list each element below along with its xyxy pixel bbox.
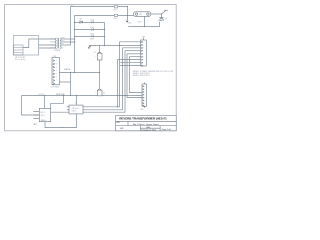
svg-text:WIRE 3 304 P03/74: WIRE 3 304 P03/74 (133, 75, 150, 77)
power entry module (14, 36, 39, 56)
6.3V tap circle (144, 26, 145, 27)
wire conn1 pin9 stub (120, 64, 141, 66)
wire lamp to node (151, 13, 162, 15)
svg-text:BR-1: BR-1 (41, 112, 45, 114)
svg-text:REG 5: REG 5 (72, 111, 77, 113)
wire rail1 top (71, 6, 128, 8)
wire box2 top stub (76, 96, 78, 106)
cap B (97, 89, 102, 95)
wire rail1 drop (70, 7, 72, 46)
wire 6.3V stub (144, 16, 146, 26)
svg-text:WHT: WHT (50, 42, 53, 44)
wire primary feed low (39, 47, 56, 49)
switch S1 on rail2 (114, 14, 117, 16)
wire cap A stub (99, 46, 101, 54)
wire bus riser v3 (83, 51, 125, 112)
svg-text:BR1: BR1 (33, 124, 36, 126)
wire box1-box2 link (51, 111, 69, 113)
wire gnd drop top right (126, 7, 128, 21)
svg-text:J2: J2 (75, 102, 77, 104)
wire filter bus vertical (104, 23, 106, 46)
svg-text:4: 4 (56, 70, 57, 72)
cap A (97, 53, 102, 60)
capacitor C3 (92, 35, 93, 38)
svg-text:3: 3 (56, 67, 57, 69)
svg-text:+: + (30, 112, 31, 114)
wire bus riser v1 (83, 42, 120, 107)
svg-text:−: − (30, 119, 31, 121)
svg-text:SW1: SW1 (114, 18, 118, 20)
svg-text:6: 6 (56, 77, 57, 79)
svg-text:7: 7 (56, 80, 57, 82)
svg-text:PWR E: PWR E (64, 69, 71, 71)
svg-text:~: ~ (30, 115, 31, 117)
page border frame (decorative) (5, 5, 177, 131)
capacitor C1 (92, 21, 93, 24)
capacitor to chassis right (159, 18, 164, 21)
connector CN2 right lower (142, 82, 147, 108)
wire conn1 pin4 to bus (125, 50, 141, 52)
svg-text:BLK: BLK (50, 39, 53, 41)
svg-text:Maj 1 Short + Jasper James: Maj 1 Short + Jasper James (133, 123, 159, 126)
svg-text:5: 5 (56, 73, 57, 75)
svg-text:GRN: GRN (61, 38, 64, 40)
wire connector stub (60, 81, 71, 83)
svg-text:CON GND: CON GND (50, 87, 60, 89)
svg-text:CN1: CN1 (142, 37, 145, 39)
wire conn1 pin8 stub (120, 61, 141, 63)
svg-text:REV:: REV: (116, 122, 120, 124)
svg-text:C5: C5 (103, 93, 105, 95)
svg-text:LM band: LM band (72, 108, 79, 110)
wire drop to ground line (70, 73, 72, 96)
svg-text:T-25X2: T-25X2 (54, 50, 60, 52)
wire cap line 1 (75, 22, 105, 24)
wire box1 upper link (51, 96, 64, 109)
regulator U2 (67, 105, 83, 114)
wire bus riser v6 (117, 60, 119, 107)
capacitor C2 (92, 28, 93, 31)
wire cap A to cap B (99, 60, 101, 90)
svg-text:YEL: YEL (61, 44, 64, 46)
wire cap line 3 (75, 36, 105, 38)
svg-text:1: 1 (56, 60, 57, 62)
svg-text:January 23, 2002: January 23, 2002 (141, 128, 156, 131)
svg-text:2: 2 (56, 64, 57, 66)
pilot lamp PL1 (134, 12, 151, 17)
wire bus riser v4 (127, 54, 142, 98)
diode D1 (80, 21, 83, 24)
wire cap line 2 (75, 29, 105, 31)
wire ground rail mid (91, 45, 141, 47)
wire conn1 pin3 to bus (123, 47, 141, 49)
wire conn1 pin5 to bus (127, 53, 141, 55)
wire box1 top stub (44, 96, 46, 109)
svg-text:.02: .02 (165, 18, 167, 20)
wire main vertical drop (74, 23, 76, 73)
svg-text:Page 1 of 1: Page 1 of 1 (162, 129, 172, 131)
wire primary feed top (23, 39, 56, 48)
wire main ground run (22, 95, 142, 97)
wire conn1 pin6 to bus (130, 56, 141, 58)
wire bottom run (45, 114, 77, 128)
wire conn1 pin7 (118, 59, 141, 61)
svg-text:PWR GND: PWR GND (56, 94, 65, 96)
fuse F1 on rail1 (114, 6, 117, 8)
svg-text:C4: C4 (94, 52, 96, 54)
svg-text:(Power Entry): (Power Entry) (15, 58, 26, 61)
svg-text:47uF: 47uF (90, 27, 94, 29)
wire transformer secondary 3 (63, 44, 70, 46)
wire bus riser v5 (130, 57, 143, 93)
svg-text:+2.5 V: +2.5 V (38, 94, 44, 96)
svg-text:FU1: FU1 (114, 10, 117, 12)
title block (116, 115, 177, 130)
wire ground run left drop (22, 96, 40, 116)
wire heater return (128, 22, 159, 27)
wire node to cap (161, 14, 163, 18)
wire conn1 pin1 to bus (120, 41, 141, 43)
wire PWR E (60, 72, 100, 74)
connector CN1 right (141, 38, 147, 66)
wire transformer secondary 1 (63, 38, 74, 40)
svg-text:+: + (95, 92, 96, 94)
wire transformer secondary 2 (63, 41, 74, 43)
terminal 6.3V (162, 10, 169, 14)
svg-text:CN2: CN2 (140, 109, 143, 111)
chassis ground arrow mid (88, 45, 91, 48)
ground (earth, solid triangle) (126, 21, 129, 23)
svg-text:REVERB TRANSFORMER (HES-F): REVERB TRANSFORMER (HES-F) (119, 117, 166, 121)
svg-text:W005: W005 (41, 115, 45, 117)
wire rail2 (75, 15, 134, 17)
wire rail2 drop (74, 16, 76, 23)
svg-text:BLU: BLU (50, 45, 53, 47)
junction dots (44, 6, 162, 128)
transformer T1 (54, 38, 64, 48)
svg-text:GRY: GRY (50, 48, 53, 50)
svg-text:+: + (95, 55, 96, 57)
regulator U1 (33, 108, 50, 121)
wire bus riser v2 (83, 48, 123, 110)
svg-text:47uF: 47uF (90, 33, 94, 35)
wire primary feed mid (39, 44, 56, 46)
svg-text:47uF: 47uF (90, 19, 94, 21)
